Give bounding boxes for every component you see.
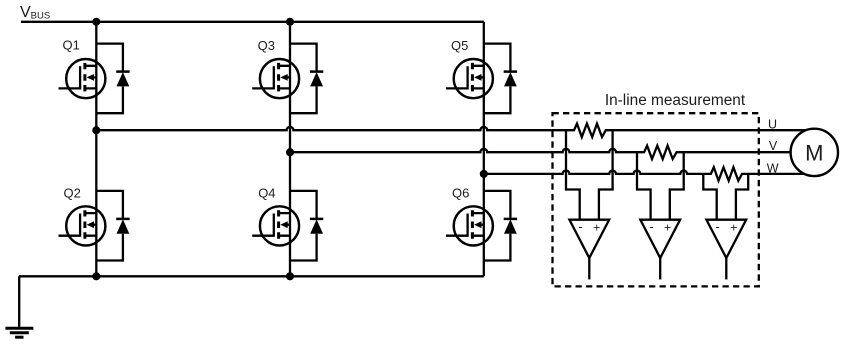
transistor Q2 (N-channel MOSFET) bbox=[59, 206, 106, 245]
svg-text:-: - bbox=[715, 219, 719, 234]
transistor Q1 (N-channel MOSFET) bbox=[59, 59, 106, 98]
wire V shunt left Kelvin tap to amp - input bbox=[637, 152, 651, 220]
svg-text:Q1: Q1 bbox=[63, 38, 80, 53]
svg-text:+: + bbox=[593, 221, 600, 235]
wire U shunt right Kelvin tap to amp + input bbox=[599, 130, 613, 220]
op-amp A3 (W-phase current sense amplifier) bbox=[706, 219, 746, 258]
motor M bbox=[791, 129, 838, 176]
junction dot 7 bbox=[286, 272, 294, 280]
wire leg 3 (Q5/Q6 half-bridge) bbox=[483, 22, 485, 276]
svg-text:Q4: Q4 bbox=[258, 186, 275, 201]
transistor Q3 (N-channel MOSFET) bbox=[252, 59, 299, 98]
transistor Q5 (N-channel MOSFET) bbox=[446, 59, 493, 98]
transistor Q4 (N-channel MOSFET) bbox=[252, 206, 299, 245]
diode D6 (body diode) bbox=[484, 191, 517, 261]
wire W shunt left Kelvin tap to amp - input bbox=[703, 174, 716, 220]
wire phase W (with crossover hops) bbox=[484, 167, 805, 180]
junction dot 4 bbox=[286, 148, 294, 156]
in-line measurement block boundary (dashed) bbox=[553, 113, 759, 286]
svg-text:Q5: Q5 bbox=[451, 38, 468, 53]
wire A2 output bbox=[659, 258, 661, 279]
junction dot 2 bbox=[286, 18, 294, 26]
wire leg 1 (Q1/Q2 half-bridge) bbox=[95, 22, 97, 276]
svg-text:In-line measurement: In-line measurement bbox=[605, 92, 746, 109]
diode D3 (body diode) bbox=[290, 44, 323, 114]
svg-text:Q3: Q3 bbox=[258, 38, 275, 53]
svg-text:-: - bbox=[578, 219, 582, 234]
junction dot 5 bbox=[480, 170, 488, 178]
op-amp A2 (V-phase current sense amplifier) bbox=[640, 219, 680, 258]
svg-text:W: W bbox=[767, 162, 779, 176]
wire phase V (with crossover hops) bbox=[290, 146, 791, 159]
svg-text:U: U bbox=[768, 118, 777, 132]
wire W shunt right Kelvin tap to amp + input bbox=[736, 174, 748, 220]
wire VBUS top rail bbox=[21, 21, 484, 23]
svg-text:+: + bbox=[664, 221, 671, 235]
svg-text:-: - bbox=[649, 219, 653, 234]
junction dot 3 bbox=[92, 126, 100, 134]
diode D1 (body diode) bbox=[96, 44, 129, 114]
wire A1 output bbox=[588, 258, 590, 279]
diode D2 (body diode) bbox=[96, 191, 129, 261]
wire phase U (with crossover hops) bbox=[96, 124, 806, 137]
wire V shunt right Kelvin tap to amp + input bbox=[670, 152, 684, 220]
junction dot 1 bbox=[92, 18, 100, 26]
wire A3 output bbox=[725, 258, 727, 279]
ground bbox=[5, 276, 33, 337]
diode D5 (body diode) bbox=[484, 44, 517, 114]
diode D4 (body diode) bbox=[290, 191, 323, 261]
svg-text:M: M bbox=[805, 140, 823, 165]
wire leg 2 (Q3/Q4 half-bridge) bbox=[289, 22, 291, 276]
svg-text:Q2: Q2 bbox=[64, 185, 81, 200]
transistor Q6 (N-channel MOSFET) bbox=[446, 206, 493, 245]
svg-text:V: V bbox=[769, 139, 778, 153]
op-amp A1 (U-phase current sense amplifier) bbox=[569, 219, 609, 258]
wire bottom ground rail bbox=[19, 275, 484, 277]
svg-text:VBUS: VBUS bbox=[20, 4, 50, 22]
wire U shunt left Kelvin tap to amp - input bbox=[566, 130, 580, 220]
junction dot 6 bbox=[92, 272, 100, 280]
svg-text:Q6: Q6 bbox=[452, 185, 469, 200]
svg-text:+: + bbox=[730, 221, 737, 235]
